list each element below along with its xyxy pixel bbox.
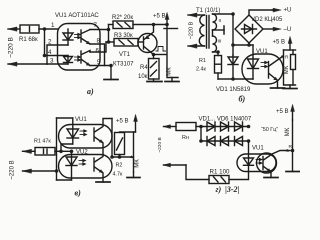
wire secondary top down <box>232 14 234 55</box>
pulse symbol (a) <box>156 47 166 52</box>
resistor R4 <box>149 55 160 82</box>
phototransistor 2 (a) <box>81 51 90 66</box>
transformer core <box>207 16 210 49</box>
resistor R1 68k <box>20 25 39 33</box>
svg-text:VU1: VU1 <box>256 49 268 55</box>
MK block (b) <box>284 50 296 85</box>
opto emission arrows 2 (a) <box>75 56 81 61</box>
svg-text:VT1: VT1 <box>119 52 131 58</box>
diode VD1 <box>228 55 238 79</box>
node dot v1 <box>59 150 63 154</box>
emitter ground (b) <box>271 87 285 89</box>
input arrow bottom (a) <box>8 62 47 66</box>
svg-text:4.7к: 4.7к <box>113 172 123 178</box>
node dot g4 <box>247 139 251 143</box>
resistor R1 (g) <box>209 176 229 184</box>
node dot a8 <box>152 53 156 57</box>
svg-text:I: I <box>200 29 201 35</box>
input arrow bottom (b) <box>188 44 199 48</box>
svg-text:R2* 20к: R2* 20к <box>112 15 133 21</box>
node dot b1 <box>231 12 235 16</box>
node dot b2 <box>231 43 235 47</box>
+5V rail (v) <box>120 131 136 133</box>
wire R1 to node (v) <box>55 150 72 152</box>
wire pin7 <box>90 29 109 31</box>
wire winding III to R1 <box>213 51 219 53</box>
bottom bus (b) <box>218 78 253 80</box>
svg-text:+U: +U <box>284 8 292 14</box>
+5V arrow (b) <box>288 37 292 51</box>
left column (g) <box>200 127 202 142</box>
LED of VU1 (g) <box>244 158 254 165</box>
signal wire to MK (v) <box>112 156 134 158</box>
optocoupler VU1 body (a) <box>58 24 101 71</box>
collector bus vertical (a) <box>108 25 110 43</box>
svg-text:МК: МК <box>285 127 291 136</box>
transistor VT1 <box>138 25 157 55</box>
node dot g2 <box>199 139 203 143</box>
LED 1 of VU1 (a) <box>63 29 73 45</box>
wire R1 to pin1 <box>39 28 58 30</box>
node dot a1 <box>43 27 47 31</box>
-U output <box>263 27 291 33</box>
resistor R2 (v) <box>115 133 125 158</box>
phototransistor (b) <box>269 55 284 88</box>
node dot v3 <box>55 169 59 173</box>
wire pin8 down <box>90 44 105 66</box>
node dot v2 <box>70 150 74 154</box>
emitter ground (g) <box>264 177 278 179</box>
input arrow top (v) <box>23 149 36 153</box>
svg-text:R: R <box>289 144 293 150</box>
input arrow top (g) <box>164 125 177 129</box>
ground under pin5 <box>104 66 118 80</box>
node dot a5 <box>109 64 113 68</box>
node dot g5 <box>291 149 295 153</box>
svg-text:КТ3107: КТ3107 <box>113 62 134 68</box>
node dot a2 <box>43 54 47 58</box>
opto arrows (b) <box>261 61 268 67</box>
node dot v5 <box>118 155 122 159</box>
svg-text:3: 3 <box>50 58 54 65</box>
wire pin4 <box>45 55 69 57</box>
bridge rectifier VD2 <box>235 15 263 43</box>
svg-text:VU1: VU1 <box>252 146 264 152</box>
optocoupler VU1 body (g) <box>237 154 276 172</box>
node dot v4 <box>110 155 114 159</box>
bottom diode row line <box>201 140 249 142</box>
svg-text:10к: 10к <box>138 74 148 80</box>
resistor R2 (a) <box>109 21 134 29</box>
svg-text:+5 В: +5 В <box>276 109 289 115</box>
VU1 collector drop <box>111 119 113 158</box>
transformer primary winding I <box>199 15 205 46</box>
opto arrows VU1 (v) <box>80 130 87 136</box>
LED of VU2 <box>66 151 77 180</box>
svg-text:~220 В: ~220 В <box>157 137 163 152</box>
MK block (a) <box>164 25 178 78</box>
left bus (v) <box>56 118 58 180</box>
node dot b4 <box>247 43 251 47</box>
optocoupler VU1 body (b) <box>242 54 283 84</box>
wire R2 to +5V rail <box>133 24 167 26</box>
svg-text:~220 В: ~220 В <box>8 37 15 58</box>
svg-text:VU1: VU1 <box>75 117 87 123</box>
svg-text:г) |3-2|: г) |3-2| <box>216 185 240 194</box>
top hat wire (v) <box>57 117 73 119</box>
LED of VU1 (v) <box>67 118 79 144</box>
resistor R1 (v) <box>35 148 55 156</box>
svg-text:6: 6 <box>96 48 100 55</box>
opto emission arrows 1 (a) <box>75 33 81 38</box>
signal entry tick (v) <box>130 156 132 158</box>
wire R1 to LED (g) <box>229 165 249 179</box>
svg-text:R1 47к: R1 47к <box>34 139 51 145</box>
ground under R4 <box>147 81 162 83</box>
opto arrows VU2 <box>79 159 86 165</box>
svg-text:II: II <box>219 18 222 24</box>
VU2 emitter ground <box>96 181 110 183</box>
svg-text:а): а) <box>87 87 94 96</box>
transformer winding II <box>213 14 234 30</box>
center tap chassis bar <box>213 26 225 34</box>
diode VD4 <box>207 137 215 146</box>
svg-text:МК: МК <box>284 65 290 74</box>
resistor R1 (b) <box>215 52 222 79</box>
input arrow top (b) <box>188 13 199 17</box>
input arrow bottom (v) <box>23 169 57 173</box>
wire Rn to matrix <box>196 126 201 128</box>
svg-text:VD1 1N5819: VD1 1N5819 <box>216 87 251 93</box>
+5V arrow (g) <box>291 105 295 121</box>
node dot b5 <box>231 77 235 81</box>
+U output <box>249 8 291 16</box>
node dot g1 <box>199 125 203 129</box>
svg-text:4: 4 <box>48 49 52 56</box>
diode VD3 <box>235 122 243 131</box>
node dot a7 <box>165 23 169 27</box>
svg-text:VU2: VU2 <box>76 150 88 156</box>
phototransistor VU1 (v) <box>94 119 112 155</box>
wire pins 2-3 <box>47 45 68 64</box>
svg-text:+5 В: +5 В <box>273 40 286 46</box>
VU2 cathode bottom wire <box>57 179 72 181</box>
svg-text:1: 1 <box>51 22 55 29</box>
node dot a6 <box>152 23 156 27</box>
diode VD6 <box>235 137 243 146</box>
input arrow top (a) <box>8 27 20 31</box>
svg-text:Rн: Rн <box>182 135 189 141</box>
svg-text:–U: –U <box>284 27 292 33</box>
svg-text:~220 В: ~220 В <box>10 160 16 179</box>
resistor R internal (b) <box>291 50 296 85</box>
LED feed wire (g) <box>248 141 250 158</box>
LED 2 of VU1 (a) <box>64 56 73 65</box>
svg-text:VU1 АОТ101АС: VU1 АОТ101АС <box>55 13 99 19</box>
svg-text:~220 В: ~220 В <box>189 21 195 39</box>
wire pin3 <box>47 63 68 65</box>
wire pins 1-4 <box>44 29 46 56</box>
ground under MK (v) <box>127 172 140 178</box>
wire bend to R1 (g) <box>186 165 209 180</box>
ground under MK (a) <box>165 78 179 82</box>
diode VD5 <box>221 137 229 146</box>
top diode row line <box>201 126 249 128</box>
phototransistor VU2 <box>94 155 103 183</box>
+5V arrow (v) <box>134 115 138 133</box>
optocoupler VU2 body <box>59 155 113 179</box>
opto arrows (g) <box>256 158 262 164</box>
svg-text:7: 7 <box>94 22 98 29</box>
wire pin6 up <box>90 42 106 52</box>
svg-text:Т1 (10/1): Т1 (10/1) <box>196 8 220 14</box>
svg-text:III: III <box>218 39 222 45</box>
svg-text:R2: R2 <box>116 163 123 169</box>
wire bridge bottom to LED <box>233 43 253 45</box>
svg-text:в): в) <box>75 189 82 198</box>
MK line (g) <box>292 120 294 172</box>
wire collector to MK (a) <box>154 54 167 56</box>
svg-text:б): б) <box>239 95 246 104</box>
svg-text:R4: R4 <box>140 65 148 71</box>
node dot a3 <box>107 28 111 32</box>
svg-text:R: R <box>285 55 289 61</box>
svg-text:2: 2 <box>48 39 52 46</box>
svg-text:R1 68к: R1 68к <box>19 37 38 43</box>
svg-text:+5 В: +5 В <box>153 14 166 20</box>
node dot b3 <box>216 50 220 54</box>
node dot a4 <box>107 40 111 44</box>
svg-text:МК: МК <box>135 159 141 168</box>
transformer winding III <box>213 30 217 52</box>
resistor Rn <box>176 123 196 131</box>
phototransistor (g) <box>257 149 291 177</box>
svg-text:VD2 КЦ405: VD2 КЦ405 <box>251 17 283 23</box>
VU1 cathode to R1 bus <box>61 144 73 151</box>
input arrow bottom (g) <box>164 163 187 167</box>
svg-text:+5 В: +5 В <box>116 119 129 125</box>
LED of VU1 (b) <box>248 45 259 79</box>
svg-text:R1: R1 <box>199 58 206 64</box>
MK edge (v) <box>133 132 135 172</box>
svg-text:“50 Гц”: “50 Гц” <box>261 127 278 133</box>
diode VD1 <box>207 122 215 131</box>
ground under MK (b) <box>283 85 297 89</box>
wire pin5 to ground <box>90 65 111 67</box>
svg-text:МК: МК <box>167 67 173 76</box>
optocoupler VU1 body (v) <box>59 125 113 149</box>
resistor R3 <box>106 39 138 47</box>
phototransistor 1 (a) <box>81 30 90 45</box>
diode VD2 (row) <box>221 122 229 131</box>
svg-text:R1 100: R1 100 <box>210 169 231 176</box>
svg-text:2.4к: 2.4к <box>196 67 206 73</box>
node dot g3 <box>247 125 251 129</box>
+5V arrow (a) <box>165 13 169 25</box>
ground under MK (g) <box>286 171 300 173</box>
